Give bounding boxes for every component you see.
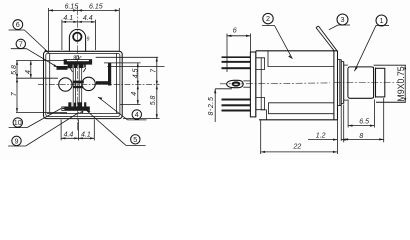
- svg-text:4: 4: [135, 110, 139, 119]
- right view centerline: [220, 83, 399, 84]
- top bar stem: [73, 55, 81, 61]
- contact neck: [70, 68, 86, 72]
- svg-text:6: 6: [16, 20, 20, 29]
- label 8-2.5: [214, 89, 232, 122]
- right terminal bar: [96, 81, 109, 84]
- right view bottom slot: [256, 98, 265, 110]
- dimension 8 thread length: [344, 98, 384, 142]
- svg-text:8-2.5: 8-2.5: [208, 97, 215, 116]
- horizontal centerline: [38, 83, 160, 85]
- svg-text:4.1: 4.1: [81, 131, 91, 138]
- solder pin bottom 3: [222, 110, 251, 112]
- svg-text:4.4: 4.4: [83, 15, 93, 22]
- leader arrow right lobe (callout 4): [98, 97, 103, 100]
- right view top slot: [256, 58, 265, 70]
- svg-text:6.15: 6.15: [89, 4, 103, 11]
- callout circle 3: [329, 14, 350, 30]
- contact assembly top bar: [64, 60, 92, 65]
- left view body outline: [44, 51, 123, 118]
- svg-text:4.5: 4.5: [132, 68, 139, 78]
- left view inner wall left line: [49, 54, 51, 114]
- svg-text:6.5: 6.5: [359, 118, 369, 125]
- leader arrow left terminal (callout 7): [54, 64, 59, 67]
- collar ring: [338, 60, 342, 106]
- bottom flange rising tabs: [68, 102, 86, 107]
- thread dim extension top: [374, 64, 406, 66]
- dimension 1.2 collar: [308, 105, 346, 142]
- top bar hanging tabs: [68, 64, 86, 68]
- callout circle 2: [262, 13, 292, 58]
- lever item 3: [316, 26, 337, 51]
- left terminal bar: [57, 66, 68, 70]
- callout circle 5: [86, 110, 146, 145]
- svg-text:7: 7: [150, 68, 157, 73]
- leader arrow body corner (callout 6): [45, 49, 49, 53]
- svg-text:4.1: 4.1: [63, 15, 73, 22]
- vertical centerline: [77, 7, 79, 131]
- dimension 4.1 4.4 second row: [62, 20, 96, 50]
- dimension 4.4 4.1 bottom row: [61, 120, 94, 141]
- callout circle 9: [8, 113, 79, 147]
- rotated dim texts left view: [11, 65, 157, 105]
- callout circle 6: [9, 20, 49, 53]
- svg-text:1.2: 1.2: [316, 132, 326, 139]
- bottom flange: [62, 107, 90, 111]
- callout circle 7: [11, 39, 58, 67]
- svg-text:10: 10: [14, 118, 22, 127]
- solder pin bottom 2: [222, 104, 251, 106]
- svg-text:5: 5: [133, 135, 137, 144]
- right view bottom step: [261, 110, 266, 120]
- left side dimension 5.8 and 7 line: [16, 61, 64, 113]
- solder pin top 2: [222, 61, 251, 63]
- left view body inner wall: [46, 53, 120, 116]
- dimension 6 pins: [227, 34, 250, 73]
- dimension 6.5 boss: [348, 100, 374, 128]
- left view inner wall right line: [115, 54, 117, 114]
- svg-text:M9X0.75: M9X0.75: [396, 66, 406, 101]
- eyelet pin: [227, 80, 251, 87]
- washer: [341, 62, 348, 104]
- callout circle 1: [354, 15, 389, 71]
- svg-text:1: 1: [380, 16, 384, 25]
- svg-text:7: 7: [19, 40, 23, 49]
- svg-text:3: 3: [341, 15, 345, 24]
- right side dimension 4.5 / 4 line: [104, 63, 165, 105]
- right contact lobe: [82, 77, 95, 90]
- solder pin top 1: [222, 56, 251, 58]
- leader arrow flange right (callout 5): [86, 110, 91, 113]
- bottom dark segment: [60, 112, 67, 114]
- threaded boss M9: [348, 67, 376, 98]
- boss tip: [376, 68, 385, 97]
- svg-text:6: 6: [233, 28, 237, 35]
- svg-text:9: 9: [15, 137, 19, 146]
- solder pin top 3: [222, 67, 251, 69]
- left view inner bottom line: [47, 112, 119, 114]
- svg-text:2: 2: [266, 14, 270, 23]
- svg-text:4: 4: [131, 92, 138, 96]
- leader arrow into flange left (callout 10): [61, 107, 65, 109]
- svg-text:8: 8: [359, 133, 363, 140]
- left contact lobe: [59, 78, 72, 91]
- thread dim line: [404, 65, 406, 102]
- right wall contact bar: [108, 63, 111, 86]
- svg-text:4: 4: [25, 70, 32, 74]
- svg-text:5.8: 5.8: [11, 65, 18, 75]
- left side dimension 4 line: [30, 61, 32, 79]
- callout circle 4: [98, 97, 147, 120]
- dimension 22: [261, 106, 338, 154]
- mounting lug outline: [69, 29, 85, 51]
- svg-text:9: 9: [87, 36, 90, 42]
- svg-text:22: 22: [293, 143, 302, 150]
- solder pin bottom 1: [222, 99, 251, 101]
- lug hole: [73, 33, 81, 41]
- central column: [73, 64, 84, 107]
- right view rear plate: [250, 51, 261, 117]
- thread dim extension bottom: [376, 101, 406, 103]
- right view body top line: [256, 50, 338, 52]
- right view body right edge: [333, 51, 335, 120]
- right view inner bottom line: [269, 103, 334, 114]
- right side dimension 7 / 5.8 line: [96, 57, 160, 118]
- right view body inner top line: [268, 51, 334, 67]
- right view bottom plate line: [259, 119, 338, 121]
- svg-text:8: 8: [73, 56, 76, 62]
- leader arrow stem bottom (callout 9): [79, 111, 83, 113]
- svg-text:5.8: 5.8: [150, 95, 157, 105]
- callout circle 10: [9, 109, 61, 128]
- svg-text:4.4: 4.4: [64, 131, 74, 138]
- svg-text:6.15: 6.15: [65, 4, 79, 11]
- dimension 6.15 6.15 top row: [49, 8, 120, 51]
